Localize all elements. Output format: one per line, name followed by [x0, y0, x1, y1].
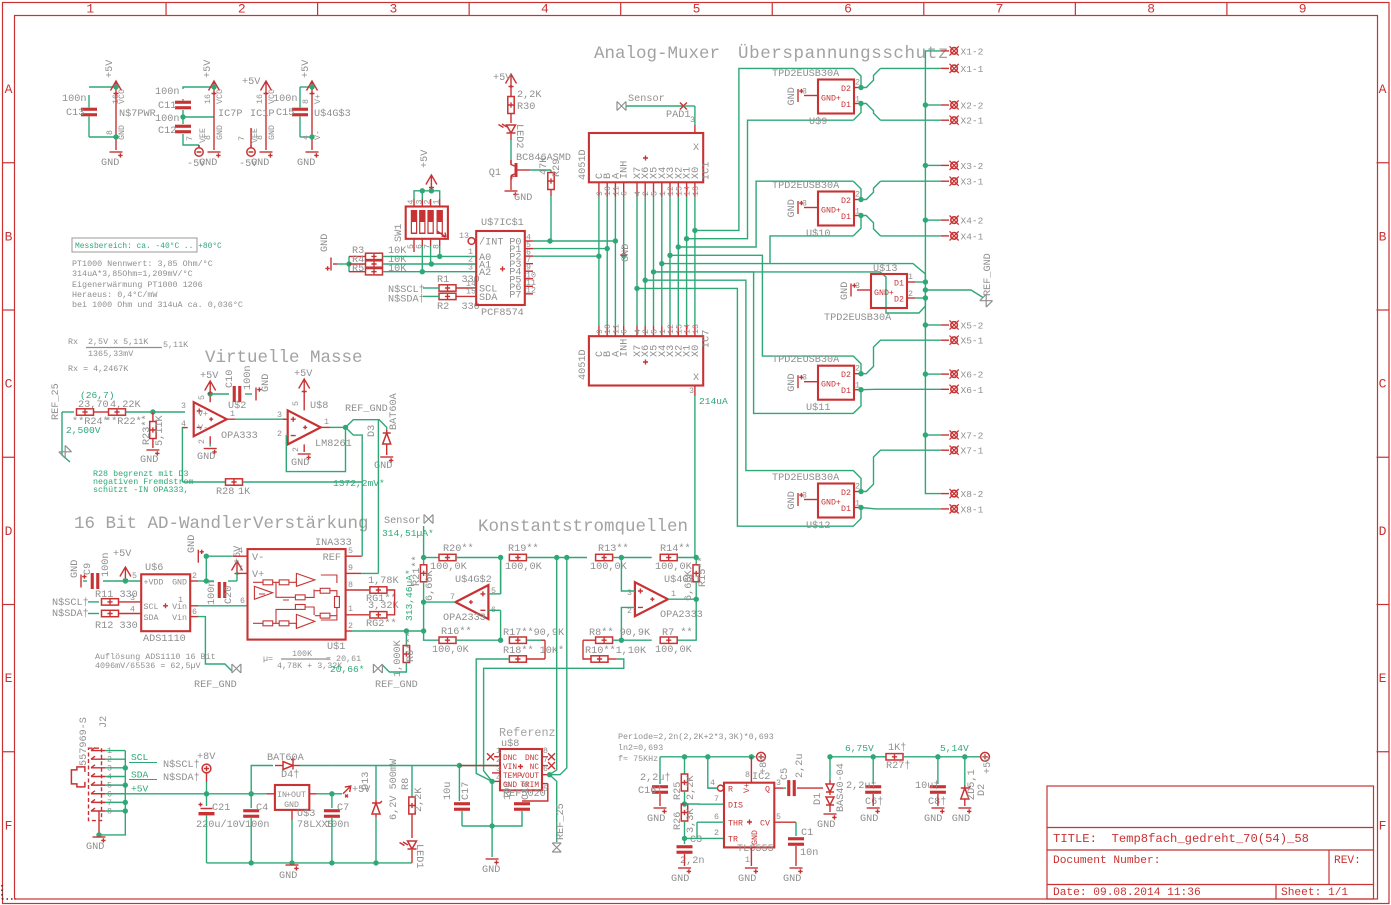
- net flag REF_GND bottom left: [232, 664, 241, 673]
- svg-text:6: 6: [240, 597, 245, 606]
- svg-text:R19**: R19**: [508, 543, 539, 555]
- svg-text:R8** 90,9K: R8** 90,9K: [589, 627, 651, 639]
- resistor R10 1,10K: [583, 640, 591, 659]
- title block: [1047, 786, 1374, 899]
- wire R13 supply vertical long: [550, 558, 567, 775]
- svg-text:REF: REF: [323, 553, 341, 564]
- svg-text:U$4G$3: U$4G$3: [314, 108, 351, 120]
- svg-text:OPA2333: OPA2333: [443, 613, 486, 624]
- ADS1110 right pin stubs: [190, 580, 198, 582]
- svg-text:C13: C13: [66, 108, 84, 119]
- svg-text:R14**: R14**: [660, 543, 691, 555]
- svg-text:GND+: GND+: [821, 499, 841, 508]
- svg-text:+5V: +5V: [113, 549, 132, 560]
- svg-text:C7: C7: [337, 803, 349, 814]
- svg-text:TPD2EUSB30A: TPD2EUSB30A: [772, 355, 840, 366]
- wire gnd to resistors: [337, 263, 349, 265]
- svg-text:D2: D2: [977, 784, 988, 796]
- svg-text:LED2: LED2: [513, 124, 524, 148]
- svg-text:2,2K: 2,2K: [686, 775, 697, 800]
- svg-text:15: 15: [466, 288, 476, 297]
- svg-text:V-: V-: [252, 553, 264, 564]
- svg-text:Rx: Rx: [68, 337, 78, 347]
- svg-text:X6-2: X6-2: [961, 370, 984, 381]
- svg-text:U$1: U$1: [327, 641, 345, 653]
- svg-text:1: 1: [745, 856, 750, 865]
- svg-text:D2: D2: [841, 197, 851, 206]
- resistor R27 1K: [886, 754, 903, 760]
- REF5020 left pin 1 DNC nc: [494, 756, 500, 758]
- svg-text:5,11K: 5,11K: [155, 415, 166, 446]
- gnd under C17 (ref gnd node): [491, 781, 493, 857]
- svg-text:IC7: IC7: [702, 330, 713, 348]
- svg-text:C18: C18: [521, 782, 532, 800]
- svg-text:D: D: [1379, 524, 1387, 539]
- svg-text:PCF8574: PCF8574: [481, 308, 524, 319]
- svg-text:GND: GND: [187, 535, 198, 553]
- gnd pin of U$11: [804, 381, 818, 383]
- wire U$8 output node: [321, 426, 330, 428]
- svg-text:X7-2: X7-2: [961, 431, 984, 442]
- U$8 gnd pin: [303, 444, 305, 452]
- svg-text:2: 2: [277, 430, 282, 439]
- wire R19 down to REF (long): [550, 558, 557, 775]
- wire RG1-RG2 link: [387, 590, 395, 615]
- wire U$4G$1 + input: [621, 558, 635, 592]
- ground right of C10: [256, 387, 262, 400]
- svg-text:N$SDA†: N$SDA†: [388, 294, 425, 306]
- capacitor C17 10u: [458, 766, 460, 801]
- svg-text:314,51µA*: 314,51µA*: [382, 528, 434, 539]
- svg-text:THR: THR: [728, 820, 743, 829]
- +5V arrow right of regulator: [332, 793, 342, 795]
- connector pad X2-2: [941, 104, 949, 106]
- svg-text:100n: 100n: [155, 87, 179, 98]
- connector pad X3-2: [941, 164, 949, 166]
- svg-text:2,2K: 2,2K: [517, 90, 542, 101]
- svg-text:+5V: +5V: [301, 59, 312, 78]
- svg-text:GND: GND: [783, 874, 801, 885]
- capacitor C18 10u: [522, 784, 548, 801]
- svg-text:GND: GND: [952, 814, 970, 825]
- svg-text:= 20,61: = 20,61: [326, 654, 361, 664]
- svg-text:1,78K: 1,78K: [368, 576, 399, 587]
- svg-text:U$4G$2: U$4G$2: [455, 574, 492, 586]
- resistor R4 10K: [366, 261, 383, 267]
- wire channel to U$13 D1: [662, 264, 926, 282]
- wire IC7 pin3 down to current source node: [694, 396, 696, 558]
- svg-text:BAT60A: BAT60A: [389, 392, 400, 430]
- svg-text:D: D: [5, 524, 13, 539]
- svg-text:Sensor: Sensor: [384, 516, 421, 527]
- svg-text:GND: GND: [199, 158, 217, 169]
- svg-text:R15**: R15**: [697, 556, 709, 587]
- wire channel to U$11 D2 / X5-1: [670, 255, 861, 373]
- svg-text:6: 6: [192, 608, 197, 617]
- svg-text:+5V: +5V: [105, 59, 116, 78]
- svg-text:6: 6: [621, 191, 630, 196]
- wire U$4G$1 output: [668, 598, 696, 600]
- svg-text:DIS: DIS: [728, 802, 743, 811]
- svg-text:Periode=2,2n(2,2K+2*3,3K)*0,69: Periode=2,2n(2,2K+2*3,3K)*0,693: [618, 732, 774, 742]
- wire U$4G$2 inputs: [488, 593, 500, 595]
- svg-text:X3-2: X3-2: [961, 161, 984, 172]
- svg-text:R13**: R13**: [598, 543, 629, 555]
- top rail +8V: [660, 756, 756, 758]
- INA333 internal opamps: [253, 573, 339, 628]
- svg-text:2: 2: [292, 447, 301, 452]
- svg-text:N$7PWR: N$7PWR: [119, 108, 156, 120]
- svg-text:C: C: [1379, 377, 1387, 392]
- svg-text:Eigenerwärmung PT1000 1206: Eigenerwärmung PT1000 1206: [72, 280, 203, 290]
- gnd pin of U$13: [857, 289, 871, 291]
- svg-text:X4-1: X4-1: [961, 231, 984, 242]
- svg-text:X: X: [693, 143, 699, 154]
- supply +8V symbol right: [757, 752, 766, 761]
- gnd pin of U$12: [804, 499, 818, 501]
- svg-text:100,0K: 100,0K: [655, 645, 693, 656]
- svg-text:IC2: IC2: [752, 772, 770, 783]
- U$8 power pin: [303, 392, 305, 410]
- svg-text:V+: V+: [252, 570, 264, 581]
- TLC555 pin CV: [774, 821, 796, 823]
- svg-text:6: 6: [844, 2, 852, 17]
- svg-text:4: 4: [541, 2, 549, 17]
- svg-text:INH: INH: [620, 339, 631, 357]
- svg-text:6,66K: 6,66K: [684, 570, 695, 601]
- transistor Q1 BC846ASMD: [511, 160, 523, 180]
- svg-text:A: A: [5, 82, 13, 97]
- svg-text:SW1: SW1: [394, 224, 405, 242]
- resistor R8b 90,9K: [596, 637, 613, 643]
- svg-text:f≈ 75KHz: f≈ 75KHz: [618, 754, 658, 764]
- svg-text:7: 7: [714, 795, 719, 804]
- voltage regulator U$3 78LXXS: [275, 785, 309, 810]
- svg-text:REF_25: REF_25: [51, 383, 62, 420]
- wire to INA pin9 (vertical): [377, 420, 379, 574]
- svg-text:GND+: GND+: [821, 207, 841, 216]
- protection IC U$13 TPD2EUSB30A: [871, 274, 907, 308]
- svg-text:R18** 10K*: R18** 10K*: [503, 645, 564, 657]
- wire R5 to A2: [383, 271, 477, 273]
- wire R22 to opamp: [153, 411, 185, 413]
- svg-text:REF_GND: REF_GND: [194, 680, 237, 691]
- wire +5V rail to ADS1110: [125, 580, 141, 582]
- svg-text:IC1: IC1: [702, 162, 713, 180]
- svg-text:Heraeus: 0,4°C/mW: Heraeus: 0,4°C/mW: [72, 290, 158, 300]
- svg-text:U$6: U$6: [145, 562, 163, 574]
- svg-text:GND: GND: [197, 452, 215, 463]
- svg-text:PAD1: PAD1: [666, 110, 690, 121]
- svg-text:5: 5: [776, 813, 781, 822]
- svg-text:3: 3: [130, 594, 135, 603]
- svg-text:ln2=0,693: ln2=0,693: [618, 743, 663, 753]
- svg-text:GND: GND: [751, 830, 760, 845]
- ground left of R3-R5: [325, 258, 331, 271]
- protection IC U$11 TPD2EUSB30A: [818, 366, 854, 400]
- protection IC U$10 TPD2EUSB30A: [818, 192, 854, 226]
- svg-text:4: 4: [130, 606, 135, 615]
- capacitor C7 100n: [331, 794, 333, 808]
- svg-text:100n: 100n: [245, 820, 269, 831]
- wire output down to R7: [677, 599, 696, 640]
- capacitor C4 100n: [249, 860, 254, 865]
- svg-text:C11: C11: [158, 101, 176, 112]
- wire R4 to A1: [383, 263, 477, 265]
- capacitor C6 2,2u: [872, 757, 874, 784]
- svg-text:R28: R28: [216, 487, 234, 498]
- svg-text:3,3K: 3,3K: [686, 808, 697, 833]
- svg-text:R20**: R20**: [443, 543, 474, 555]
- svg-text:GND: GND: [118, 125, 127, 140]
- svg-text:2: 2: [348, 622, 353, 631]
- IC U$6 ADS1110: [141, 574, 190, 631]
- IC IC2 TLC555: [724, 783, 774, 848]
- capacitor C10 100n: [210, 393, 229, 395]
- power +5V above R30: [506, 74, 517, 88]
- svg-text:+5V: +5V: [200, 371, 219, 382]
- svg-text:+5V: +5V: [294, 369, 313, 380]
- svg-text:3: 3: [802, 492, 807, 501]
- svg-text:**R22*: **R22*: [105, 416, 142, 428]
- svg-text:R26: R26: [673, 812, 684, 830]
- svg-text:Analog-Muxer: Analog-Muxer: [594, 44, 720, 64]
- power +5V N$7PWR: [111, 81, 122, 95]
- svg-text:D2: D2: [894, 296, 904, 305]
- svg-text:N$SCL†: N$SCL†: [163, 759, 200, 771]
- svg-text:C4: C4: [256, 803, 268, 814]
- svg-text:2: 2: [627, 607, 632, 616]
- svg-text:5,11K: 5,11K: [163, 340, 189, 350]
- svg-text:100n: 100n: [62, 94, 86, 105]
- svg-text:5: 5: [491, 587, 496, 596]
- capacitor C16 2,2u: [659, 757, 661, 784]
- svg-text:9: 9: [1299, 2, 1307, 17]
- wire R25/R26 node to DIS: [685, 803, 725, 805]
- svg-text:3: 3: [802, 200, 807, 209]
- svg-text:P7: P7: [509, 290, 521, 301]
- svg-text:8: 8: [543, 747, 548, 756]
- resistor R13 100,0K: [567, 557, 587, 559]
- svg-text:SCL: SCL: [144, 603, 159, 612]
- IC7 top pin stubs: [598, 325, 600, 336]
- svg-text:B: B: [1379, 229, 1387, 244]
- svg-text:314uA*3,85Ohm=1,209mV/°C: 314uA*3,85Ohm=1,209mV/°C: [72, 269, 193, 279]
- svg-text:220u/10V: 220u/10V: [196, 819, 246, 831]
- svg-text:X5-1: X5-1: [961, 336, 984, 347]
- svg-text:6: 6: [714, 813, 719, 822]
- SW1 top pins wires: [413, 199, 415, 207]
- svg-text:schützt -IN OPA333,: schützt -IN OPA333,: [93, 485, 189, 495]
- svg-text:N$SDA†: N$SDA†: [52, 608, 89, 620]
- D1 top to rail: [829, 757, 831, 780]
- resistor R25 2,2K: [684, 757, 686, 774]
- svg-text:D2: D2: [841, 85, 851, 94]
- svg-text:7: 7: [186, 136, 195, 141]
- ground under Q1: [505, 191, 518, 197]
- svg-text:1: 1: [908, 273, 913, 282]
- svg-text:1K†: 1K†: [888, 742, 906, 754]
- svg-text:REF_GND: REF_GND: [983, 253, 994, 296]
- svg-text:/INT: /INT: [479, 237, 503, 249]
- resistor RG1 1,78K: [370, 587, 387, 593]
- svg-text:5: 5: [132, 572, 137, 581]
- capacitor C12: [175, 125, 191, 134]
- svg-text:VIN: VIN: [503, 764, 517, 772]
- svg-text:2,5V x 5,11K: 2,5V x 5,11K: [88, 337, 149, 347]
- connector pad X6-2: [941, 373, 949, 375]
- svg-text:47K: 47K: [539, 156, 550, 175]
- svg-text:ADS1110: ADS1110: [143, 634, 186, 645]
- LED LED2: [499, 124, 516, 133]
- power pin U$4G$3: [307, 81, 318, 95]
- svg-text:J2: J2: [99, 716, 110, 728]
- svg-text:R7 **: R7 **: [662, 627, 693, 639]
- svg-text:3: 3: [277, 411, 282, 420]
- svg-text:REF_GND: REF_GND: [375, 680, 418, 691]
- svg-text:C6†: C6†: [865, 796, 883, 808]
- wire U$13 D1 stub to trunk: [915, 281, 925, 283]
- svg-text:CV: CV: [760, 820, 770, 829]
- svg-text:8: 8: [745, 771, 750, 780]
- svg-text:10K: 10K: [388, 264, 407, 275]
- svg-text:SCL: SCL: [131, 752, 149, 763]
- connector pad X5-1: [941, 339, 949, 341]
- svg-text:4: 4: [238, 547, 243, 556]
- frame column ticks top: [165, 3, 167, 16]
- capacitor C21 220u/10V: [206, 794, 208, 806]
- svg-text:TPD2EUSB30A: TPD2EUSB30A: [772, 473, 840, 484]
- svg-text:VEE: VEE: [199, 128, 208, 143]
- resistor R21 6,66K: [423, 558, 425, 566]
- TLC555 GND pin: [750, 847, 752, 866]
- svg-text:8: 8: [348, 581, 353, 590]
- -5V supply symbol left: [195, 145, 203, 156]
- wire U$4G$1 - input: [621, 607, 635, 640]
- TLC555 pin R with bubble: [718, 785, 724, 791]
- svg-text:X4-2: X4-2: [961, 216, 984, 227]
- svg-text:R10**1,10K: R10**1,10K: [585, 645, 647, 657]
- svg-text:VOUT: VOUT: [520, 773, 539, 781]
- svg-text:D1: D1: [841, 213, 851, 222]
- svg-text:NC: NC: [530, 764, 540, 772]
- svg-text:D1: D1: [813, 793, 824, 805]
- svg-text:V+: V+: [314, 94, 323, 104]
- svg-text:4: 4: [710, 779, 715, 788]
- svg-text:8: 8: [106, 130, 115, 135]
- resistor R28 1K: [182, 481, 225, 483]
- wire R10 to gnd net long: [484, 659, 624, 781]
- -5V supply symbol for IC1P: [247, 145, 255, 156]
- resistor R30 2,2K: [510, 85, 512, 96]
- svg-text:8: 8: [1147, 2, 1155, 17]
- resistor R1 330: [439, 285, 456, 291]
- J2 wires to bus: [105, 750, 125, 752]
- svg-text:C5: C5: [780, 768, 791, 780]
- svg-text:13: 13: [692, 324, 701, 334]
- wire output to REF_GND net: [346, 420, 387, 432]
- svg-text:23,70: 23,70: [78, 400, 109, 411]
- resistor R26 3,3K: [681, 804, 687, 821]
- connector pad X3-1: [941, 180, 949, 182]
- wires trunk to X pads: [925, 104, 940, 106]
- svg-text:VEE: VEE: [251, 128, 260, 143]
- svg-text:5: 5: [348, 547, 353, 556]
- svg-text:100,0K: 100,0K: [432, 645, 470, 656]
- svg-text:C3: C3: [690, 835, 702, 846]
- wire R26 bottom to THR: [708, 757, 717, 788]
- svg-text:D3: D3: [367, 425, 378, 437]
- svg-text:2,2n: 2,2n: [680, 856, 704, 867]
- ground under IC1P: [260, 152, 273, 158]
- svg-text:100n: 100n: [273, 94, 297, 105]
- wires C15: [300, 86, 312, 88]
- svg-text:GND: GND: [86, 842, 104, 853]
- resistor R14 100,0K: [621, 557, 651, 559]
- svg-text:2,2K: 2,2K: [414, 787, 425, 812]
- wire ADS GND to node: [198, 580, 206, 582]
- ground under D3: [380, 457, 393, 463]
- connector pad X7-1: [941, 449, 949, 451]
- svg-text:1365,33mV: 1365,33mV: [88, 349, 133, 359]
- svg-text:+5V: +5V: [420, 149, 431, 168]
- pad PAD1: [680, 103, 687, 110]
- J2 shell glyph: [71, 767, 85, 787]
- resistor R20 100,0K: [424, 557, 439, 559]
- U$2 gnd pin 2: [209, 436, 211, 444]
- svg-text:R30: R30: [517, 102, 535, 113]
- resistor RG2 3,32K: [370, 612, 387, 618]
- wire channel to U$12 D2 / X7-1: [645, 280, 861, 491]
- svg-text:4: 4: [496, 774, 501, 783]
- svg-text:GND+: GND+: [874, 289, 894, 298]
- svg-text:10u: 10u: [503, 782, 514, 800]
- resistor R3 10K: [366, 253, 383, 259]
- svg-text:10u: 10u: [443, 782, 454, 800]
- main +8V rail: [125, 793, 266, 795]
- power pin IC7P: [209, 81, 220, 95]
- svg-text:3: 3: [802, 374, 807, 383]
- svg-text:B: B: [5, 229, 13, 244]
- diode D1 BAS40-04: [826, 780, 834, 795]
- svg-text:D1: D1: [894, 280, 904, 289]
- svg-text:100n: 100n: [243, 366, 254, 390]
- svg-text:BAT60A: BAT60A: [267, 753, 305, 764]
- svg-text:GND: GND: [261, 374, 272, 392]
- svg-text:6,66K: 6,66K: [425, 570, 436, 601]
- svg-text:GND: GND: [840, 282, 851, 300]
- svg-text:2: 2: [238, 2, 246, 17]
- svg-text:100n: 100n: [325, 820, 349, 831]
- IC IC7 4051D: [589, 336, 703, 385]
- net flag REF_GND right: [925, 290, 983, 298]
- resistor R6 1,000K: [405, 631, 407, 646]
- svg-text:8: 8: [302, 99, 311, 104]
- svg-text:R23**: R23**: [141, 414, 153, 445]
- svg-text:GND: GND: [291, 458, 309, 469]
- svg-text:C21: C21: [212, 803, 230, 814]
- svg-text:1: 1: [86, 2, 94, 17]
- resistor R23 5,11K: [152, 412, 154, 421]
- svg-text:VCC: VCC: [118, 89, 127, 104]
- svg-text:7: 7: [238, 565, 243, 574]
- svg-text:Sheet: 1/1: Sheet: 1/1: [1281, 887, 1348, 899]
- wire PAD1 down to IC1 pin 3: [694, 106, 696, 125]
- J2 gnd tail: [98, 811, 100, 835]
- supply symbol +8V: [202, 764, 211, 773]
- svg-text:2,2u: 2,2u: [795, 754, 806, 778]
- svg-text:U$12: U$12: [806, 520, 830, 532]
